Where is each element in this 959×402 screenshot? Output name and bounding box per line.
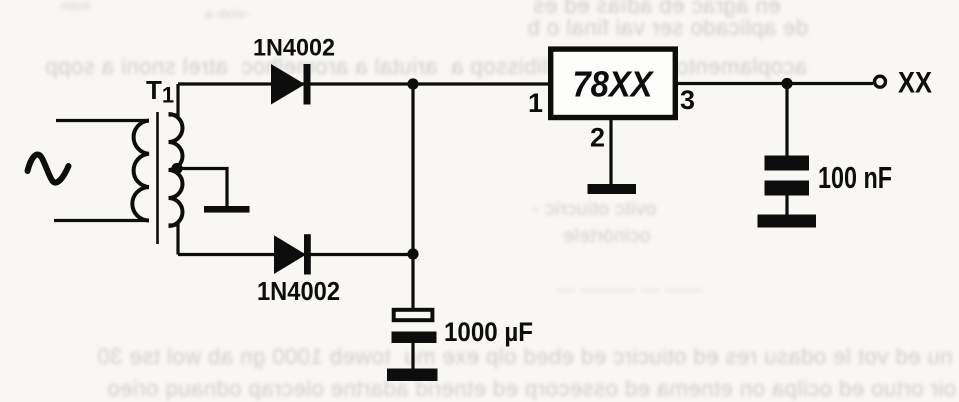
node junction bottom rail <box>407 248 418 259</box>
wire bottom rail <box>178 253 413 256</box>
svg-text:100 nF: 100 nF <box>818 160 892 195</box>
svg-text:1000 µF: 1000 µF <box>444 317 533 347</box>
transformer center tap node <box>171 163 182 174</box>
regulator U1 78XX <box>551 49 676 117</box>
wire output node to 100nF <box>785 84 788 157</box>
svg-text:XX: XX <box>898 67 932 100</box>
capacitor C1 1000uF positive plate <box>394 310 433 320</box>
svg-text:78XX: 78XX <box>573 64 655 105</box>
wire primary bottom lead <box>54 219 149 222</box>
ground center tap <box>204 206 250 213</box>
wire secondary top lead <box>169 84 179 115</box>
svg-text:1N4002: 1N4002 <box>253 35 335 62</box>
svg-text:2: 2 <box>590 123 605 153</box>
node junction output <box>781 78 792 89</box>
wire primary top lead <box>56 119 149 122</box>
wire center tap to ground <box>177 169 227 207</box>
svg-text:1N4002: 1N4002 <box>257 276 340 306</box>
transformer T1 secondary winding <box>169 114 183 226</box>
node junction top rail <box>407 78 418 89</box>
wire regulator output to terminal <box>677 82 873 85</box>
transformer T1 primary winding <box>132 121 149 221</box>
svg-text:3: 3 <box>680 85 695 115</box>
transformer core <box>156 112 159 244</box>
ground 100nF <box>758 215 817 228</box>
capacitor C1 1000uF negative plate <box>392 332 437 344</box>
wire 1000uF to ground <box>411 342 414 369</box>
ground regulator pin2 <box>588 184 637 194</box>
output terminal XX open circle <box>875 76 886 87</box>
svg-text:1: 1 <box>528 88 543 118</box>
svg-text:T1: T1 <box>146 75 174 108</box>
AC source sine symbol <box>28 154 69 182</box>
capacitor C2 100nF plate 2 <box>765 181 810 196</box>
bleed-through mirrored text rows (page reverse side) <box>60 0 90 13</box>
wire secondary bottom lead <box>169 225 179 255</box>
ground 1000uF <box>387 369 438 382</box>
wire vertical bus from top junction to filter cap <box>411 84 414 310</box>
wire regulator pin2 to ground <box>609 117 612 185</box>
capacitor C2 100nF plate 1 <box>765 156 810 171</box>
diode D2 1N4002 bottom <box>274 234 311 274</box>
wire 100nF to ground <box>785 195 788 215</box>
wire top rail to regulator <box>178 82 550 85</box>
diode D1 1N4002 top <box>271 64 311 105</box>
